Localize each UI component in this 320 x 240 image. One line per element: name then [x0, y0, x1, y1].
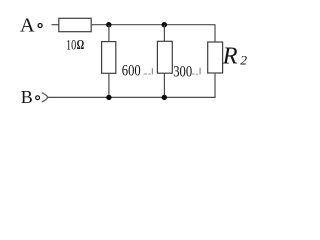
wire resistor 600 to bottom rail: [108, 73, 110, 97]
svg-text:10: 10: [66, 37, 76, 53]
wire resistor 300 to bottom rail: [163, 73, 165, 97]
terminal B: [36, 96, 40, 100]
svg-text:B: B: [21, 87, 33, 107]
svg-text:R: R: [222, 43, 238, 70]
wire down to resistor R2: [214, 25, 216, 42]
junction bottom-left: [106, 95, 111, 100]
junction bottom-right: [162, 95, 167, 100]
svg-text:600: 600: [122, 62, 141, 80]
wire down to resistor 600: [108, 25, 110, 42]
junction top-left: [106, 22, 111, 27]
resistor R2 (vertical): [208, 42, 223, 73]
resistor 10ohm (horizontal): [59, 18, 91, 31]
wire down to resistor 300: [163, 25, 165, 42]
svg-text:A: A: [20, 15, 35, 37]
wire bottom rail: [47, 96, 216, 98]
svg-text:2: 2: [240, 53, 247, 67]
resistor 300 (vertical): [157, 41, 172, 73]
wire resistor R2 to bottom rail: [214, 73, 216, 97]
wire A stub: [52, 24, 59, 26]
dashed leader for 300: [192, 73, 195, 75]
wire B hook: [42, 93, 48, 102]
junction top-right: [162, 22, 167, 27]
svg-text:Ω: Ω: [77, 36, 85, 52]
terminal A: [38, 24, 42, 28]
resistor 600 (vertical): [102, 42, 116, 74]
wire top rail: [91, 24, 215, 26]
dashed leader for 600: [144, 73, 147, 75]
svg-text:300: 300: [173, 63, 192, 81]
